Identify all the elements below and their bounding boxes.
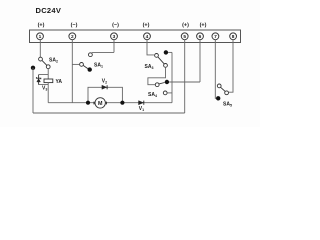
junction dot right of motor [120, 101, 124, 105]
terminal strip box [30, 30, 241, 43]
switch SA2 moving contact (circle, lever) [39, 57, 51, 68]
svg-text:SA5: SA5 [223, 101, 232, 107]
svg-text:2: 2 [71, 34, 74, 40]
terminal 4 [144, 33, 151, 40]
wire from terminal 1 down [39, 40, 41, 57]
wire from lower contact to vertical [167, 92, 172, 94]
freewheel bypass branch [88, 87, 122, 102]
svg-text:M: M [98, 101, 103, 107]
wire terminal 6 down [199, 40, 201, 82]
svg-text:4: 4 [146, 34, 149, 40]
fixed contact dot of SA3 [164, 50, 168, 54]
svg-text:SA4: SA4 [148, 92, 157, 98]
wire terminal 4 to SA3 [147, 40, 154, 55]
terminal 3 [111, 33, 118, 40]
terminal 5 [181, 33, 188, 40]
svg-text:6: 6 [199, 34, 202, 40]
fixed contact dot of SA1 [88, 67, 92, 71]
motor M [94, 98, 106, 108]
bottom rail wire [33, 112, 185, 114]
relay coil YA (box) [44, 79, 53, 83]
terminal 1 [37, 33, 44, 40]
junction dot left of motor [86, 101, 90, 105]
svg-text:SA2: SA2 [49, 58, 58, 64]
terminal 8 [230, 33, 237, 40]
switch SA4 moving contact [155, 83, 164, 87]
motor supply wire [48, 102, 172, 104]
svg-text:(+): (+) [143, 23, 150, 29]
svg-text:SA3: SA3 [145, 64, 154, 70]
wire from terminal 2 down to motor wire [71, 40, 73, 103]
svg-text:5: 5 [183, 34, 186, 40]
terminal 2 [69, 33, 76, 40]
diode V2 on bypass [102, 85, 107, 89]
svg-text:(+): (+) [38, 23, 45, 29]
svg-text:V2: V2 [102, 79, 107, 85]
wire from SA3 fixed contact to vertical [168, 51, 172, 53]
fixed contact dot of SA4 [165, 80, 169, 84]
svg-text:YA: YA [56, 79, 63, 85]
svg-text:V1: V1 [139, 106, 144, 112]
wire SA1 to relay coil [47, 69, 49, 79]
parallel rails for zener branch [39, 75, 49, 85]
long vertical wire to motor line [171, 52, 173, 102]
fixed contact dot of SA5 [216, 96, 220, 100]
svg-text:8: 8 [232, 34, 235, 40]
zener diode V2 [36, 75, 40, 85]
svg-text:1: 1 [39, 34, 42, 40]
switch SA5 moving contact [217, 84, 228, 95]
wire terminal 3 to SA2 [92, 40, 114, 53]
series diode V1 [139, 101, 144, 105]
svg-text:(+): (+) [200, 23, 207, 29]
SA4 lower open contact [163, 91, 167, 95]
wire terminal 5 down to bottom rail [184, 40, 186, 113]
switch SA3 moving contact [155, 54, 168, 68]
wire terminal 7 down to SA5 fixed contact [214, 40, 217, 99]
wire SA4 fixed contact to terminal 6 wire [169, 81, 200, 83]
svg-text:(−): (−) [71, 23, 78, 29]
terminal 6 [197, 33, 204, 40]
svg-text:7: 7 [214, 34, 217, 40]
svg-text:DC24V: DC24V [36, 6, 62, 15]
svg-text:3: 3 [113, 34, 116, 40]
svg-text:(−): (−) [112, 23, 119, 29]
wire terminal 8 down to SA5 [229, 40, 234, 93]
svg-text:SA1: SA1 [94, 63, 103, 69]
link wire from terminal-2 wire to SA1 [72, 63, 79, 65]
terminal 7 [212, 33, 219, 40]
fixed contact dot of SA2 [31, 66, 35, 70]
wire from fixed contact down to bottom rail [32, 68, 34, 113]
svg-text:V3: V3 [42, 86, 47, 92]
switch SA1 (moving contact and lever) [80, 53, 93, 69]
svg-text:(+): (+) [182, 23, 189, 29]
coil bottom lead to motor wire [47, 83, 49, 103]
wire from SA3 lower contact to SA4 [148, 67, 166, 84]
